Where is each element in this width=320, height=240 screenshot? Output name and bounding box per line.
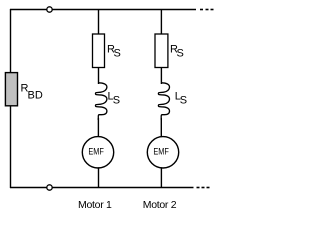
inductor LS motor2 — [158, 83, 169, 120]
svg-text:S: S — [113, 95, 120, 107]
wire bottom bus continuation dots — [197, 187, 210, 189]
wire motor1 top — [98, 9, 100, 35]
wire motor2 top — [160, 9, 162, 35]
wire bottom bus — [10, 187, 194, 189]
svg-text:S: S — [180, 95, 187, 107]
svg-text:Motor 2: Motor 2 — [143, 199, 177, 211]
wire motor1 mid2 — [97, 118, 99, 138]
EMF source motor1 — [82, 137, 113, 168]
resistor RS motor2 — [155, 34, 168, 68]
wire motor2 bottom — [160, 167, 162, 188]
svg-text:EMF: EMF — [88, 147, 104, 158]
node terminal top — [47, 7, 52, 12]
svg-text:Motor 1: Motor 1 — [78, 199, 112, 211]
wire motor2 mid2 — [160, 118, 162, 138]
wire left lower — [10, 106, 12, 188]
resistor RBD — [5, 73, 17, 106]
wire motor2 mid1 — [160, 68, 162, 85]
wire motor1 bottom — [98, 167, 100, 188]
svg-text:S: S — [177, 48, 184, 60]
EMF source motor2 — [147, 137, 178, 168]
node terminal bottom — [47, 185, 52, 190]
inductor LS motor1 — [95, 83, 106, 120]
svg-text:S: S — [114, 48, 121, 60]
svg-text:EMF: EMF — [153, 147, 169, 158]
wire top bus continuation dots — [200, 9, 214, 11]
svg-text:BD: BD — [28, 90, 43, 102]
wire motor1 mid1 — [98, 68, 100, 85]
wire top bus — [10, 9, 196, 11]
wire left upper — [10, 9, 12, 73]
resistor RS motor1 — [93, 34, 105, 68]
